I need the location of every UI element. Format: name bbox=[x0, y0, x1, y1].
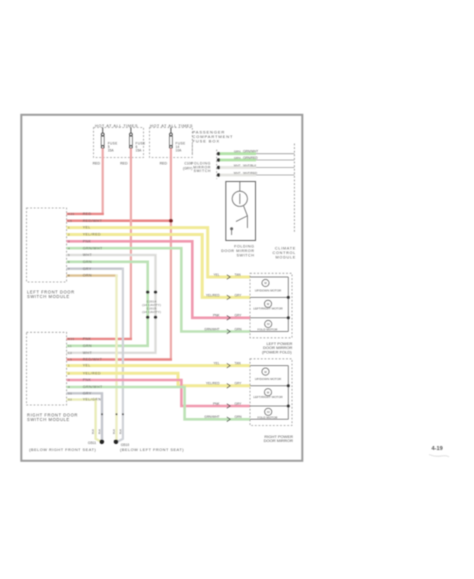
right power door mirror M2 box (dashed) bbox=[250, 359, 292, 426]
svg-text:RED/WHT: RED/WHT bbox=[83, 358, 103, 362]
svg-text:M: M bbox=[267, 302, 270, 306]
central electronic module boundary (dashed) bbox=[293, 144, 295, 234]
svg-text:2: 2 bbox=[68, 371, 70, 375]
svg-text:7: 7 bbox=[68, 267, 70, 271]
svg-text:HOT AT ALL TIMES: HOT AT ALL TIMES bbox=[95, 123, 138, 128]
svg-text:PNK: PNK bbox=[83, 337, 92, 341]
svg-text:15A: 15A bbox=[136, 149, 143, 153]
wire door module 1 pin 2 RED/WHT to splice S1 bbox=[67, 220, 171, 222]
svg-text:PNK: PNK bbox=[213, 314, 220, 318]
fuse F2 bbox=[129, 128, 132, 149]
ground G510 bbox=[114, 440, 119, 445]
svg-text:RED: RED bbox=[120, 162, 128, 166]
right mirror interior circuit bbox=[250, 366, 288, 420]
svg-text:GRY: GRY bbox=[235, 293, 243, 297]
svg-text:B30: B30 bbox=[68, 337, 75, 341]
wire GRN/WHT door module 2 pin 8 to right mirror pin 4 bbox=[67, 387, 250, 419]
wire YEL/RED door module 2 pin 6 to right mirror pin 2 bbox=[67, 373, 250, 386]
svg-text:(BELOW LEFT FRONT SEAT): (BELOW LEFT FRONT SEAT) bbox=[120, 447, 184, 452]
wire YEL/GRN door module 2 pin 10 to ground G511 bbox=[67, 400, 101, 442]
power mirror switch U1 box bbox=[226, 182, 256, 241]
svg-text:SWITCH: SWITCH bbox=[194, 169, 211, 173]
svg-text:RED: RED bbox=[93, 162, 101, 166]
fuse box boundary dashes bbox=[191, 145, 193, 154]
wire GRY door module 1 pin 9 to ground G510 bbox=[67, 268, 124, 270]
svg-text:LEFT/RIGHT MOTOR: LEFT/RIGHT MOTOR bbox=[253, 306, 283, 310]
in-line connector C2 upper pins bbox=[146, 291, 149, 294]
svg-text:12: 12 bbox=[68, 351, 72, 355]
svg-text:10A: 10A bbox=[176, 149, 183, 153]
svg-text:YEL/RED: YEL/RED bbox=[83, 371, 101, 375]
svg-text:M: M bbox=[267, 390, 270, 394]
wire GRN door module 1 pin 8 through connector C2 to door module 2 pin 2 bbox=[67, 262, 148, 346]
svg-text:BLK: BLK bbox=[118, 429, 122, 434]
svg-text:GRN/WHT: GRN/WHT bbox=[243, 150, 258, 154]
svg-text:WHT: WHT bbox=[234, 164, 241, 168]
splice S1 junction bbox=[169, 219, 173, 223]
svg-text:31: 31 bbox=[68, 391, 72, 395]
wire fuse F2 to door module 2 pin 1 (RED) bbox=[130, 148, 132, 340]
svg-text:WHT: WHT bbox=[83, 351, 93, 355]
svg-text:1: 1 bbox=[68, 364, 70, 368]
node pin 4 (switch) bbox=[217, 173, 220, 176]
wire YEL door module 1 pin 3 to left mirror pin 1 bbox=[67, 228, 250, 277]
node pin 3 (switch) bbox=[217, 166, 220, 169]
fuse F1 bbox=[101, 128, 104, 149]
ground G511 bbox=[100, 440, 105, 445]
svg-text:(BELOW RIGHT FRONT SEAT): (BELOW RIGHT FRONT SEAT) bbox=[29, 447, 96, 452]
node pin 1 (switch) bbox=[217, 152, 220, 155]
svg-text:A30: A30 bbox=[68, 212, 75, 216]
border frame bbox=[21, 115, 302, 461]
svg-text:YEL: YEL bbox=[213, 273, 219, 277]
svg-text:YEL/RED: YEL/RED bbox=[206, 293, 220, 297]
svg-text:BLK: BLK bbox=[91, 429, 95, 434]
svg-text:8: 8 bbox=[68, 274, 70, 278]
svg-text:PNK: PNK bbox=[213, 402, 220, 406]
svg-text:M: M bbox=[264, 370, 267, 374]
connector C2 label bbox=[142, 299, 161, 314]
svg-text:TAN: TAN bbox=[235, 273, 242, 277]
svg-text:WHT/BLK: WHT/BLK bbox=[243, 164, 256, 168]
svg-text:GRN: GRN bbox=[234, 156, 241, 160]
fuse box A dashed outline (HOT AT ALL TIMES) bbox=[94, 128, 144, 158]
svg-text:(14 CAVITY): (14 CAVITY) bbox=[142, 310, 161, 314]
svg-text:WHT: WHT bbox=[83, 253, 93, 257]
svg-text:GRN: GRN bbox=[235, 415, 243, 419]
ground wire inline pins bbox=[101, 413, 103, 415]
svg-text:UP/DOWN MOTOR: UP/DOWN MOTOR bbox=[255, 377, 282, 381]
power mirror switch pin boundary (dashed) bbox=[216, 150, 218, 180]
svg-text:GRY: GRY bbox=[235, 382, 243, 386]
svg-text:GRY: GRY bbox=[235, 402, 243, 406]
svg-text:TAN: TAN bbox=[235, 362, 242, 366]
node pin 2 (switch) bbox=[217, 158, 220, 161]
svg-text:DOOR MIRROR: DOOR MIRROR bbox=[264, 438, 293, 443]
svg-text:GRN: GRN bbox=[234, 150, 241, 154]
svg-text:CONTROL: CONTROL bbox=[273, 251, 296, 255]
svg-text:FOLD MOTOR: FOLD MOTOR bbox=[258, 328, 279, 332]
door module 2 pin labels and wire color labels bbox=[68, 337, 103, 402]
svg-text:RED: RED bbox=[83, 212, 92, 216]
wire fuse F1 to door module 1 pin 1 (RED) bbox=[102, 148, 104, 215]
wire WHT switch to module pin4 bbox=[220, 174, 256, 177]
svg-text:YEL: YEL bbox=[83, 226, 91, 230]
wire GRN/WHT door module 1 pin 6 to left mirror pin 4 bbox=[67, 248, 250, 331]
svg-text:MODULE: MODULE bbox=[276, 256, 296, 260]
svg-text:ORN: ORN bbox=[83, 274, 92, 278]
right front door module box (dashed) bbox=[27, 332, 67, 405]
svg-text:PNK: PNK bbox=[83, 378, 92, 382]
svg-text:RED: RED bbox=[160, 162, 168, 166]
svg-text:CLIMATE: CLIMATE bbox=[275, 247, 296, 251]
svg-text:YEL: YEL bbox=[213, 362, 219, 366]
svg-text:(POWER FOLD): (POWER FOLD) bbox=[262, 350, 292, 355]
ground wire color labels (vertical) bbox=[91, 429, 122, 434]
svg-text:GRY: GRY bbox=[83, 391, 92, 395]
svg-text:DOOR MIRROR: DOOR MIRROR bbox=[221, 249, 254, 253]
left front door module box (dashed) bbox=[27, 208, 67, 282]
in-line connector C2 lower pins bbox=[146, 316, 149, 319]
svg-text:FUSE BOX: FUSE BOX bbox=[193, 139, 220, 144]
svg-text:15: 15 bbox=[68, 358, 72, 362]
svg-text:2: 2 bbox=[68, 233, 70, 237]
left mirror bus junctions bbox=[287, 296, 290, 299]
svg-text:PNK: PNK bbox=[83, 239, 92, 243]
svg-text:15: 15 bbox=[68, 219, 72, 223]
svg-text:32: 32 bbox=[68, 398, 72, 402]
svg-text:BLK: BLK bbox=[112, 429, 116, 434]
svg-text:3: 3 bbox=[68, 378, 70, 382]
svg-text:YEL/RED: YEL/RED bbox=[206, 382, 220, 386]
svg-text:5: 5 bbox=[68, 253, 70, 257]
svg-text:HOT AT ALL TIMES: HOT AT ALL TIMES bbox=[150, 123, 193, 128]
wire PNK door module 1 pin 5 to left mirror pin 3 bbox=[67, 241, 250, 317]
svg-text:GRN/WHT: GRN/WHT bbox=[204, 415, 219, 419]
left power door mirror M1 box (dashed) bbox=[250, 273, 292, 338]
svg-text:GRN/WHT: GRN/WHT bbox=[83, 385, 103, 389]
svg-text:M: M bbox=[267, 322, 270, 326]
svg-text:LEFT/RIGHT MOTOR: LEFT/RIGHT MOTOR bbox=[253, 395, 283, 399]
door module 1 pin labels and wire color labels bbox=[68, 212, 103, 278]
svg-text:GRN/RED: GRN/RED bbox=[243, 156, 258, 160]
svg-text:RED/WHT: RED/WHT bbox=[83, 219, 103, 223]
wire ORN door module 1 pin 10 to ground G510 bbox=[67, 274, 118, 276]
svg-text:(GRY): (GRY) bbox=[183, 167, 192, 171]
svg-text:UP/DOWN MOTOR: UP/DOWN MOTOR bbox=[255, 288, 282, 292]
svg-text:15A: 15A bbox=[108, 149, 115, 153]
svg-text:FOLD MOTOR: FOLD MOTOR bbox=[258, 415, 279, 419]
svg-text:M: M bbox=[267, 410, 270, 414]
svg-text:4: 4 bbox=[68, 246, 70, 250]
svg-text:GRY: GRY bbox=[235, 314, 243, 318]
svg-text:FOLDING: FOLDING bbox=[234, 245, 254, 249]
wire WHT door module 1 pin 7 through connector C2 to door module 2 pin 3 bbox=[67, 255, 156, 353]
switch symbol inside U1 bbox=[231, 182, 248, 236]
svg-text:3: 3 bbox=[68, 239, 70, 243]
svg-text:GRN: GRN bbox=[83, 260, 92, 264]
left mirror motor labels bbox=[253, 281, 283, 331]
wire GRN switch to module pin1 bbox=[220, 152, 256, 155]
wire YEL/RED door module 1 pin 4 to left mirror pin 2 bbox=[67, 234, 250, 297]
svg-text:1: 1 bbox=[68, 226, 70, 230]
svg-text:GRN: GRN bbox=[83, 344, 92, 348]
fuse box B dashed outline (HOT AT ALL TIMES) bbox=[150, 128, 193, 158]
svg-text:11: 11 bbox=[68, 344, 72, 348]
svg-text:GRN: GRN bbox=[235, 327, 243, 331]
svg-text:G511: G511 bbox=[88, 441, 96, 445]
svg-text:BLK: BLK bbox=[97, 429, 101, 434]
svg-text:YEL/GRN: YEL/GRN bbox=[83, 398, 102, 402]
svg-text:4-19: 4-19 bbox=[432, 446, 443, 452]
wire YEL door module 2 pin 5 to right mirror pin 1 bbox=[67, 364, 250, 367]
svg-text:GRN/WHT: GRN/WHT bbox=[204, 327, 219, 331]
svg-text:SWITCH: SWITCH bbox=[237, 254, 255, 258]
svg-text:SWITCH MODULE: SWITCH MODULE bbox=[27, 417, 70, 422]
svg-text:SWITCH MODULE: SWITCH MODULE bbox=[27, 294, 70, 299]
left mirror interior circuit bbox=[250, 277, 288, 332]
wire GRY door module 2 pin 9 to ground G511 bbox=[67, 393, 102, 441]
svg-text:4: 4 bbox=[68, 385, 70, 389]
svg-text:WHT/RED: WHT/RED bbox=[243, 171, 258, 175]
wire GRN switch to module pin2 bbox=[220, 159, 256, 162]
svg-text:6: 6 bbox=[68, 260, 70, 264]
wire PNK door module 2 pin 7 to right mirror pin 3 bbox=[67, 380, 250, 406]
svg-text:GRY: GRY bbox=[83, 267, 92, 271]
svg-text:YEL: YEL bbox=[83, 364, 91, 368]
right mirror motor labels bbox=[253, 370, 283, 420]
svg-text:M: M bbox=[264, 281, 267, 285]
svg-text:GRN/WHT: GRN/WHT bbox=[83, 246, 103, 250]
svg-text:YEL/RED: YEL/RED bbox=[83, 233, 101, 237]
svg-text:WHT: WHT bbox=[234, 171, 241, 175]
right mirror bus junctions bbox=[287, 384, 290, 387]
wire WHT switch to module pin3 bbox=[220, 166, 256, 169]
fuse F3 bbox=[169, 128, 172, 149]
wire fuse F3 to splice S1 to door module 2 pin 4 (RED/WHT) bbox=[170, 148, 172, 360]
